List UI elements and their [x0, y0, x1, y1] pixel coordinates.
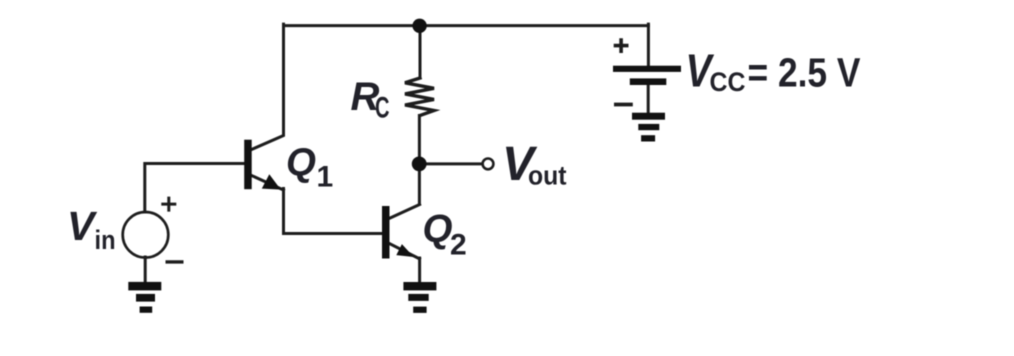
svg-text:C: C	[375, 92, 390, 125]
svg-text:CC: CC	[710, 67, 746, 97]
svg-text:V: V	[67, 203, 98, 249]
svg-text:out: out	[528, 161, 567, 191]
svg-text:Q: Q	[286, 142, 316, 185]
svg-text:= 2.5 V: = 2.5 V	[748, 50, 861, 96]
svg-text:Q: Q	[423, 208, 453, 251]
svg-text:1: 1	[317, 161, 334, 194]
svg-text:2: 2	[450, 229, 467, 262]
svg-text:in: in	[95, 225, 116, 255]
